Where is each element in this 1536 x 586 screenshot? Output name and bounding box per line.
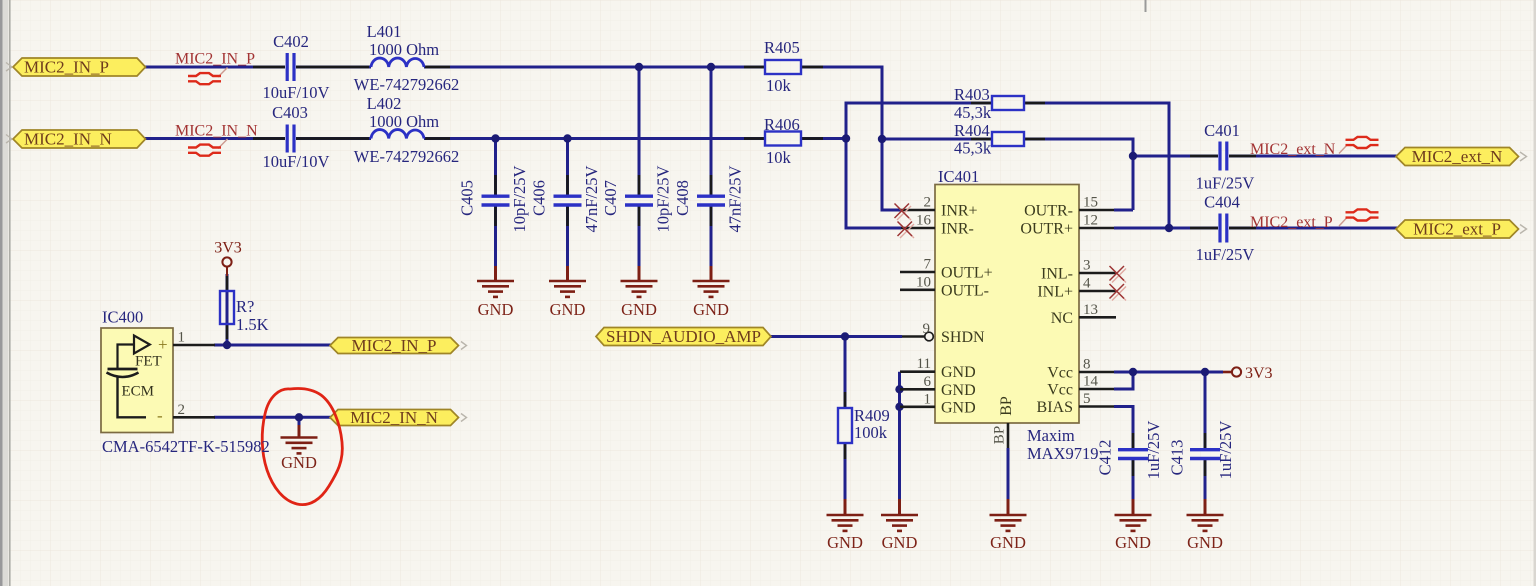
port MIC2_IN_N mid	[330, 410, 459, 426]
pin 9 SHDN with bubble	[902, 332, 933, 341]
junction node ECM gnd	[295, 413, 303, 421]
ground IC401 GND pins	[881, 499, 918, 531]
wire L402 to R406	[424, 137, 765, 140]
svg-text:GND: GND	[693, 300, 729, 319]
wire C412 bottom	[1132, 460, 1135, 501]
wire port SHDN_AUDIO_AMP to pin9	[770, 335, 902, 338]
svg-text:ECM: ECM	[122, 384, 155, 400]
svg-text:1000 Ohm: 1000 Ohm	[369, 40, 439, 59]
wire BP pin to GND	[1007, 448, 1010, 500]
junction node GND pin1	[895, 403, 903, 411]
resistor R404	[992, 132, 1024, 146]
svg-text:BP: BP	[998, 396, 1015, 416]
ground C405	[477, 266, 514, 297]
svg-text:3V3: 3V3	[1245, 365, 1273, 382]
svg-text:GND: GND	[882, 533, 918, 552]
ground C408	[693, 266, 730, 297]
svg-text:MIC2_IN_P: MIC2_IN_P	[24, 58, 109, 77]
wire C408 top	[710, 66, 713, 196]
pin 10 OUTL-	[900, 288, 935, 291]
pin 4 INL+	[1079, 290, 1116, 293]
svg-text:IC401: IC401	[938, 167, 979, 186]
wire R403 row left	[846, 102, 992, 105]
svg-text:MIC2_IN_N: MIC2_IN_N	[175, 123, 258, 140]
port tail chevron ext P	[1520, 225, 1527, 234]
svg-text:GND: GND	[941, 382, 976, 399]
wire SHDN node down to R409	[844, 337, 847, 409]
port SHDN_AUDIO_AMP	[596, 328, 771, 346]
svg-text:C413: C413	[1167, 440, 1186, 476]
svg-text:GND: GND	[941, 364, 976, 381]
svg-text:7: 7	[924, 257, 932, 273]
port MIC2_ext_N	[1396, 148, 1519, 166]
junction node wire2 C405	[491, 134, 499, 142]
svg-text:10pF/25V: 10pF/25V	[510, 165, 529, 232]
wire MIC2_ext_N to C401	[1133, 155, 1218, 158]
pin 8 Vcc	[1079, 371, 1114, 374]
differential pair symbol MIC2_ext_N	[1339, 137, 1379, 154]
svg-text:MIC2_IN_P: MIC2_IN_P	[175, 51, 255, 68]
pin BP bottom	[1007, 423, 1010, 448]
pin 6 GND	[900, 388, 935, 391]
svg-text:Vcc: Vcc	[1047, 365, 1073, 382]
svg-text:GND: GND	[1115, 533, 1151, 552]
pin 15 OUTR-	[1079, 209, 1114, 212]
svg-text:2: 2	[924, 195, 932, 211]
svg-text:1uF/25V: 1uF/25V	[1196, 174, 1255, 193]
svg-text:+: +	[158, 335, 168, 354]
svg-text:10uF/10V: 10uF/10V	[263, 83, 330, 102]
wire R403 row right to vertical	[1024, 103, 1169, 228]
ECM capsule plate	[108, 368, 138, 371]
pin 16 INR-	[901, 227, 935, 230]
wire R? bottom to pin1 row	[226, 274, 229, 345]
svg-text:C401: C401	[1204, 121, 1240, 140]
junction node wire1 C407	[635, 63, 643, 71]
svg-text:1uF/25V: 1uF/25V	[1144, 421, 1163, 480]
svg-text:4: 4	[1083, 276, 1091, 292]
port MIC2_IN_P left	[13, 58, 146, 76]
power port 3V3 left	[222, 257, 231, 276]
wire C403 to L402	[296, 137, 371, 140]
port MIC2_ext_P	[1396, 220, 1519, 238]
svg-text:10k: 10k	[766, 76, 792, 95]
svg-text:C408: C408	[673, 180, 692, 216]
differential pair symbol MIC2_IN_P	[188, 68, 228, 85]
svg-text:R404: R404	[954, 121, 990, 140]
wire R404 row left	[882, 138, 992, 141]
svg-text:10pF/25V: 10pF/25V	[653, 165, 672, 232]
differential pair symbol MIC2_ext_P	[1339, 209, 1379, 226]
svg-text:GND: GND	[550, 300, 586, 319]
svg-text:C406: C406	[529, 180, 548, 216]
svg-text:2: 2	[178, 402, 186, 418]
wire vertical to pin2 INR+	[882, 66, 901, 211]
wire C407 top	[638, 66, 641, 196]
differential pair symbol MIC2_IN_N	[188, 139, 228, 156]
resistor R405	[765, 60, 801, 74]
ground R409	[827, 499, 864, 531]
no-ERC mark pin3	[1110, 266, 1127, 283]
svg-text:INR+: INR+	[941, 203, 978, 220]
svg-text:SHDN: SHDN	[941, 329, 985, 346]
port MIC2_IN_P mid	[330, 338, 459, 354]
capacitor C413	[1190, 450, 1220, 459]
svg-text:Maxim: Maxim	[1027, 426, 1075, 445]
svg-text:47nF/25V: 47nF/25V	[725, 165, 744, 232]
svg-text:MAX9719: MAX9719	[1027, 444, 1099, 463]
svg-text:Vcc: Vcc	[1047, 382, 1073, 399]
port tail chevron mid P	[461, 342, 467, 350]
svg-text:-: -	[157, 406, 163, 425]
svg-text:R403: R403	[954, 85, 990, 104]
port tail chevron mid N	[461, 414, 467, 422]
wire pin15 OUTR-	[1114, 209, 1133, 212]
junction node R406 out	[842, 134, 850, 142]
wire port MIC2_IN_N to C403	[145, 137, 285, 140]
wire C401 to port MIC2_ext_N	[1229, 155, 1397, 158]
svg-text:SHDN_AUDIO_AMP: SHDN_AUDIO_AMP	[606, 327, 761, 346]
svg-text:12: 12	[1083, 213, 1098, 229]
svg-text:GND: GND	[621, 300, 657, 319]
svg-text:100k: 100k	[854, 423, 888, 442]
annotation red ellipse around GND	[262, 389, 342, 505]
ground C413	[1187, 499, 1224, 531]
ECM capsule membrane	[107, 373, 139, 378]
svg-text:1uF/25V: 1uF/25V	[1196, 245, 1255, 264]
resistor R?	[220, 291, 234, 324]
ECM FET triangle	[134, 336, 150, 354]
pin 5 BIAS	[1079, 405, 1114, 408]
svg-text:C402: C402	[273, 32, 309, 51]
no-ERC mark pin4	[1110, 284, 1127, 301]
svg-text:45,3k: 45,3k	[954, 139, 992, 158]
svg-text:GND: GND	[827, 533, 863, 552]
wire C405 top	[494, 139, 497, 196]
capacitor C408	[697, 196, 725, 205]
wire pin12 OUTR+ to C404	[1114, 227, 1218, 230]
wire C404 to port MIC2_ext_P	[1229, 227, 1397, 230]
svg-text:8: 8	[1083, 357, 1091, 373]
pin 1 GND	[900, 405, 935, 408]
svg-text:MIC2_ext_N: MIC2_ext_N	[1250, 141, 1336, 158]
wire 3V3 node down to C413	[1204, 372, 1207, 449]
port tail chevron left N	[6, 135, 12, 144]
svg-text:GND: GND	[281, 453, 317, 472]
svg-text:INR-: INR-	[941, 221, 974, 238]
pin 2 ECM	[173, 416, 215, 419]
capacitor C405	[482, 196, 510, 205]
svg-text:MIC2_IN_P: MIC2_IN_P	[351, 336, 436, 355]
junction node wire2 C406	[563, 134, 571, 142]
pin 12 OUTR+	[1079, 227, 1114, 230]
svg-text:IC400: IC400	[102, 308, 143, 327]
wire port MIC2_IN_P to C402	[145, 66, 285, 69]
port tail chevron left P	[6, 63, 12, 72]
ground C407	[621, 266, 658, 297]
svg-text:C403: C403	[272, 103, 308, 122]
pin stubs black overdraw	[227, 67, 1256, 476]
svg-text:9: 9	[923, 321, 931, 337]
svg-text:OUTL-: OUTL-	[941, 282, 989, 299]
svg-text:GND: GND	[941, 399, 976, 416]
port tail chevron ext N	[1520, 152, 1527, 161]
svg-text:45,3k: 45,3k	[954, 103, 992, 122]
svg-text:47nF/25V: 47nF/25V	[582, 165, 601, 232]
svg-text:OUTL+: OUTL+	[941, 265, 993, 282]
wire R405 to vertical	[801, 66, 882, 69]
svg-text:MIC2_ext_P: MIC2_ext_P	[1250, 214, 1333, 231]
resistor R409	[838, 408, 852, 443]
pin 14 Vcc	[1079, 388, 1114, 391]
svg-text:GND: GND	[478, 300, 514, 319]
ground C412	[1115, 499, 1152, 531]
junction node SHDN R409	[841, 332, 849, 340]
svg-text:3V3: 3V3	[214, 240, 242, 257]
wire R406 to node	[801, 137, 846, 140]
capacitor C403	[287, 125, 294, 153]
wire vertical node to pin16 INR-	[846, 102, 901, 229]
svg-text:MIC2_IN_N: MIC2_IN_N	[24, 130, 112, 149]
svg-text:R?: R?	[236, 297, 254, 316]
wire C408 bottom	[710, 207, 713, 268]
svg-text:WE-742792662: WE-742792662	[354, 147, 459, 166]
ECM internal wire bottom	[118, 377, 147, 417]
op-amp U IC401 body	[935, 185, 1079, 424]
junction node ext_N tap	[1129, 152, 1137, 160]
wire C406 top	[566, 139, 569, 196]
resistor R406	[765, 132, 801, 146]
svg-text:1uF/25V: 1uF/25V	[1216, 421, 1235, 480]
pin 11 GND	[900, 370, 935, 373]
capacitor C402	[287, 53, 294, 81]
svg-text:10k: 10k	[766, 148, 792, 167]
wire ECM gnd stub	[298, 417, 301, 426]
junction node R405 branch	[878, 135, 886, 143]
svg-text:GND: GND	[990, 533, 1026, 552]
wire pin5 BIAS to C412	[1114, 407, 1133, 450]
svg-text:C407: C407	[601, 180, 620, 216]
wire ECM pin1 to port MIC2_IN_P	[214, 344, 331, 347]
svg-text:INL+: INL+	[1037, 284, 1073, 301]
capacitor C406	[554, 196, 582, 205]
wire C406 bottom	[566, 207, 569, 268]
svg-text:11: 11	[917, 356, 931, 372]
svg-text:NC: NC	[1051, 310, 1073, 327]
wire C405 bottom	[494, 207, 497, 268]
svg-text:OUTR+: OUTR+	[1020, 221, 1073, 238]
svg-text:C405: C405	[457, 180, 476, 216]
wire IC GND pins vertical	[898, 372, 901, 500]
svg-text:10: 10	[916, 274, 931, 290]
svg-text:14: 14	[1083, 374, 1099, 390]
svg-text:MIC2_IN_N: MIC2_IN_N	[350, 408, 438, 427]
wire R409 to GND	[844, 443, 847, 500]
svg-text:1: 1	[924, 391, 932, 407]
no-ERC mark pin16	[898, 222, 915, 239]
wire R404 row right to vertical	[1024, 139, 1133, 210]
svg-text:1.5K: 1.5K	[236, 315, 269, 334]
junction node GND pin6	[895, 385, 903, 393]
ground BP	[990, 499, 1027, 531]
svg-text:BIAS: BIAS	[1037, 399, 1073, 416]
port MIC2_IN_N left	[13, 130, 146, 148]
pin 3 INL-	[1079, 272, 1116, 275]
wire pin8 Vcc to 3V3	[1114, 371, 1223, 374]
pin 1 ECM	[173, 344, 215, 347]
wire L401 to R405	[424, 66, 765, 69]
no-ERC mark pin2	[895, 204, 912, 221]
pin 7 OUTL+	[900, 271, 935, 274]
svg-text:1000 Ohm: 1000 Ohm	[369, 112, 439, 131]
power port 3V3 right	[1223, 367, 1241, 376]
wire C407 bottom	[638, 207, 641, 268]
wire pin14 Vcc up	[1114, 371, 1133, 389]
junction node Vcc C412	[1129, 368, 1137, 376]
junction node wire1 C408	[707, 63, 715, 71]
inductor L402	[371, 130, 424, 139]
junction node ext_P tap	[1165, 224, 1173, 232]
ECM internal wire top	[118, 345, 135, 370]
pin 2 INR+	[901, 209, 935, 212]
svg-text:INL-: INL-	[1041, 266, 1073, 283]
svg-text:16: 16	[916, 213, 932, 229]
transistor Q IC400 ECM body	[101, 328, 173, 433]
svg-text:10uF/10V: 10uF/10V	[263, 152, 330, 171]
pin 13 NC	[1079, 316, 1116, 319]
svg-text:L402: L402	[367, 94, 402, 113]
inductor L401	[371, 58, 424, 67]
svg-text:CMA-6542TF-K-515982: CMA-6542TF-K-515982	[102, 437, 270, 456]
svg-text:MIC2_ext_N: MIC2_ext_N	[1412, 147, 1503, 166]
svg-text:5: 5	[1083, 391, 1091, 407]
svg-text:13: 13	[1083, 302, 1098, 318]
svg-text:R405: R405	[764, 38, 800, 57]
svg-text:WE-742792662: WE-742792662	[354, 75, 459, 94]
svg-text:C404: C404	[1204, 193, 1240, 212]
svg-text:FET: FET	[135, 354, 162, 370]
capacitor C401	[1220, 142, 1227, 171]
wire C413 bottom	[1204, 460, 1207, 501]
capacitor C407	[625, 196, 653, 205]
svg-text:OUTR-: OUTR-	[1024, 203, 1073, 220]
capacitor C412	[1118, 450, 1148, 459]
ground ECM	[281, 425, 318, 453]
svg-text:GND: GND	[1187, 533, 1223, 552]
wire C402 to L401	[296, 66, 371, 69]
svg-text:R406: R406	[764, 115, 800, 134]
resistor R403	[992, 96, 1024, 110]
junction node R? pin1	[223, 341, 231, 349]
svg-text:MIC2_ext_P: MIC2_ext_P	[1413, 220, 1501, 239]
svg-text:6: 6	[924, 374, 932, 390]
svg-text:1: 1	[178, 330, 186, 346]
junction node Vcc C413	[1201, 368, 1209, 376]
svg-text:BP: BP	[991, 426, 1007, 444]
ground C406	[549, 266, 586, 297]
wire ECM pin2 to port MIC2_IN_N	[214, 416, 331, 419]
svg-text:L401: L401	[367, 22, 402, 41]
svg-text:15: 15	[1083, 195, 1098, 211]
capacitor C404	[1220, 214, 1227, 243]
svg-text:3: 3	[1083, 258, 1091, 274]
